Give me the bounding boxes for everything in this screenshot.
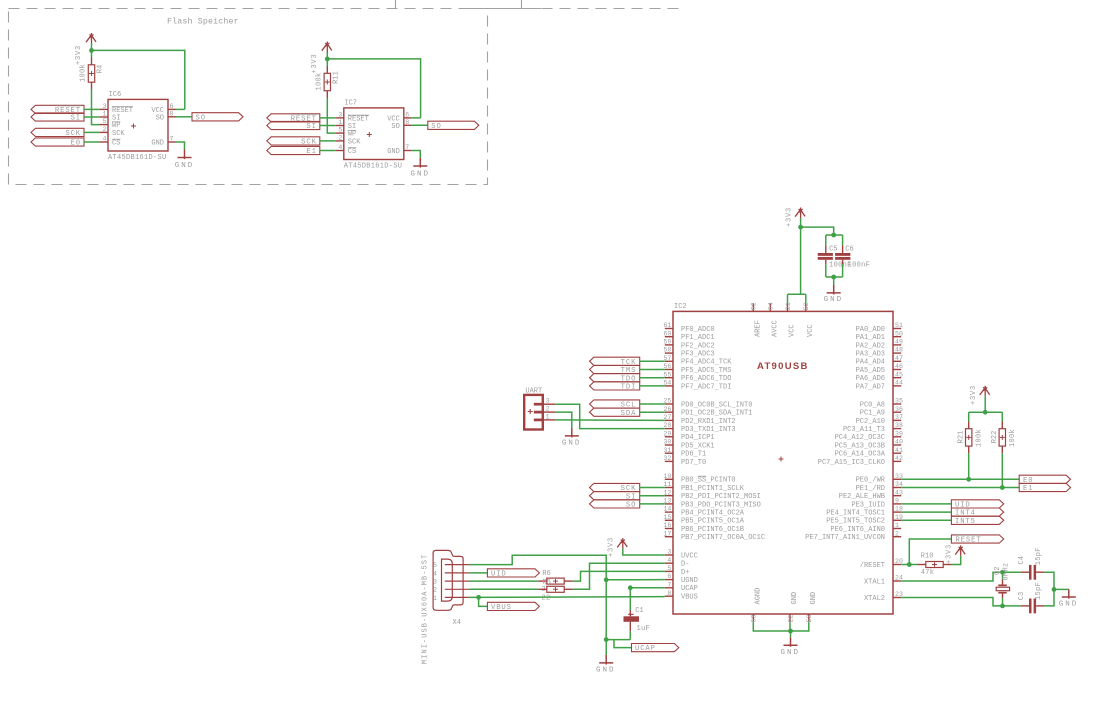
svg-text:30: 30 <box>663 439 671 446</box>
svg-text:+3V3: +3V3 <box>608 537 616 557</box>
wire UART pin3 to PD3 <box>555 404 665 428</box>
svg-text:7: 7 <box>405 144 409 151</box>
pin 13 (PB3_PDO_PCINT3_MISO) of IC2 <box>665 503 673 505</box>
pin 64 (AVCC) of IC2 top <box>769 303 771 311</box>
node SO output label <box>428 121 479 129</box>
svg-text:Flash Speicher: Flash Speicher <box>167 17 239 27</box>
svg-text:7: 7 <box>667 581 671 588</box>
svg-text:1: 1 <box>546 413 550 420</box>
svg-text:Q2: Q2 <box>994 567 1002 575</box>
svg-text:PC1_A9: PC1_A9 <box>860 410 885 418</box>
pin 10 (PB0_SS_PCINT0) of IC2 <box>665 478 673 480</box>
svg-text:IC7: IC7 <box>344 100 357 108</box>
svg-text:PB7_PCINT7_OC0A_OC1C: PB7_PCINT7_OC0A_OC1C <box>681 534 765 542</box>
svg-text:CS: CS <box>112 140 120 148</box>
pin 11 (PB1_PCINT1_SCLK) of IC2 <box>665 487 673 489</box>
svg-text:100k: 100k <box>1009 429 1017 447</box>
wire +3V3 <box>984 396 986 412</box>
capacitor C5 100nF <box>825 235 827 245</box>
svg-text:100nF: 100nF <box>848 262 871 270</box>
wire /RESET pin 20 to R10 <box>901 564 917 566</box>
flash chip IC7 AT45DB161D-SU <box>344 108 404 160</box>
node RESET label <box>951 535 1003 543</box>
pin 63 (AGND) of IC2 bottom <box>752 614 754 622</box>
svg-text:3: 3 <box>546 398 550 405</box>
wire AGND pin 63 to ground <box>753 622 790 631</box>
node xtal gnd junction <box>1052 587 1057 592</box>
pin 7 of IC6 <box>168 141 176 143</box>
svg-text:64: 64 <box>768 302 775 310</box>
wire INT4 <box>901 511 951 513</box>
node SO label (SPI) <box>590 500 640 508</box>
svg-text:PE2_ALE_HWB: PE2_ALE_HWB <box>839 493 885 501</box>
overline for SS in PB0 name <box>698 475 706 477</box>
svg-text:36: 36 <box>895 406 903 413</box>
svg-text:PE0_/WR: PE0_/WR <box>856 477 886 485</box>
power +3V3 (IC7 pull-up rail) <box>322 42 332 53</box>
wire R6 to D+ <box>573 571 665 581</box>
wire TMS <box>640 369 665 371</box>
pin 4 of IC7 <box>336 150 344 152</box>
pin 3 of IC7 <box>336 117 344 119</box>
frame: tick of upper module left edge <box>395 0 397 9</box>
pin 1 (PE6_INT6_AIN0) of IC2 <box>893 528 901 530</box>
svg-text:E0: E0 <box>71 140 81 148</box>
pin 45 (PA6_AD6) of IC2 <box>893 377 901 379</box>
svg-text:37: 37 <box>895 414 903 421</box>
wire R21 to E0 net <box>968 453 970 479</box>
svg-text:3: 3 <box>338 112 342 119</box>
pin 19 (PE5_INT5_TOSC2) of IC2 <box>893 519 901 521</box>
pin 8 of IC6 <box>168 116 176 118</box>
wire UCAP net <box>630 587 665 589</box>
wire SDA <box>640 411 665 413</box>
svg-text:UID: UID <box>491 571 507 579</box>
svg-text:VCC: VCC <box>789 324 797 337</box>
pin 5 of IC7 <box>336 132 344 134</box>
svg-text:X4: X4 <box>453 619 461 627</box>
svg-text:6: 6 <box>667 573 671 580</box>
svg-text:PD5_XCK1: PD5_XCK1 <box>681 442 715 450</box>
svg-text:2: 2 <box>546 406 550 413</box>
wire +3V3 to UVCC <box>623 549 665 555</box>
svg-text:TDI: TDI <box>621 384 637 392</box>
svg-text:SCK: SCK <box>348 138 361 146</box>
svg-text:SO: SO <box>196 114 206 122</box>
svg-text:R6: R6 <box>542 570 550 578</box>
pin 56 (PF5_ADC5_TMS) of IC2 <box>665 369 673 371</box>
node INT5 output label <box>951 516 1003 524</box>
node cap bottom junction <box>831 275 836 280</box>
frame: dashed border of Flash Speicher module <box>9 9 488 185</box>
pin 5 of IC6 <box>100 124 108 126</box>
pin 47 (PA4_AD4) of IC2 <box>893 360 901 362</box>
svg-text:60: 60 <box>663 330 671 337</box>
pin 5 of X4 <box>445 564 470 566</box>
svg-text:50: 50 <box>895 330 903 337</box>
svg-text:PC2_A10: PC2_A10 <box>856 418 885 426</box>
ground (MCU) <box>784 637 798 647</box>
wire X4 pin1 VBUS to MCU <box>470 596 665 599</box>
wire VBUS to label <box>479 597 488 606</box>
svg-text:XTAL2: XTAL2 <box>864 595 885 603</box>
svg-text:16: 16 <box>663 522 671 529</box>
resistor R5 22 <box>470 588 539 590</box>
svg-text:SO: SO <box>626 502 636 510</box>
svg-text:MINI-USB-UX60A-MB-5ST: MINI-USB-UX60A-MB-5ST <box>422 554 430 664</box>
svg-text:29: 29 <box>663 430 671 437</box>
pin 50 (PA1_AD1) of IC2 <box>893 336 901 338</box>
pin 36 (PC1_A9) of IC2 <box>893 411 901 413</box>
svg-text:PC5_A13_OC3B: PC5_A13_OC3B <box>835 442 885 450</box>
svg-text:4: 4 <box>338 144 342 151</box>
pin 1 of X4 <box>445 596 470 598</box>
svg-text:UART: UART <box>525 387 542 395</box>
pin 44 (PA7_AD7) of IC2 <box>893 385 901 387</box>
node vcc junction <box>325 57 330 62</box>
svg-text:100k: 100k <box>315 72 323 90</box>
node RESET input label <box>267 114 320 122</box>
pin 2 of IC6 <box>100 131 108 133</box>
pin 1 of UART <box>534 419 543 422</box>
svg-text:SI: SI <box>306 123 316 131</box>
pin 31 (PD6_T1) of IC2 <box>665 452 673 454</box>
node SCK input label <box>267 137 320 145</box>
svg-text:IC2: IC2 <box>674 303 687 311</box>
wire E1 from PE1 <box>901 487 1019 489</box>
wire RESET <box>84 108 100 110</box>
wire GND pin 7 <box>176 142 185 150</box>
svg-text:PD4_ICP1: PD4_ICP1 <box>681 434 715 442</box>
svg-text:PE6_INT6_AIN0: PE6_INT6_AIN0 <box>830 526 885 534</box>
wire cap bottom rail <box>826 276 843 278</box>
svg-text:PA4_AD4: PA4_AD4 <box>856 359 885 367</box>
wire R22 to E1 net <box>1001 453 1003 487</box>
capacitor C6 100nF <box>842 235 844 245</box>
pin 2 of X4 <box>445 588 470 590</box>
wire R4 to WP pin 5 <box>92 90 101 125</box>
resistor R4 100k <box>91 58 93 65</box>
svg-text:RESET: RESET <box>956 537 982 545</box>
svg-text:CS: CS <box>348 148 356 156</box>
ground (decoupling caps) <box>827 285 841 295</box>
pin 6 of IC6 <box>168 108 176 110</box>
capacitor C3 15pF <box>1003 605 1021 607</box>
svg-text:C5: C5 <box>829 245 837 253</box>
pin 48 (PA3_AD3) of IC2 <box>893 352 901 354</box>
svg-text:PB0_SS_PCINT0: PB0_SS_PCINT0 <box>681 477 736 485</box>
svg-text:SO: SO <box>391 123 399 131</box>
crystal Q2 8MHz <box>1002 572 1004 580</box>
wire C4 to gnd rail <box>1044 572 1054 589</box>
svg-text:PD6_T1: PD6_T1 <box>681 451 706 459</box>
pin 4 (D-) of IC2 <box>665 562 673 564</box>
pin 33 (PE0_/WR) of IC2 <box>893 478 901 480</box>
svg-text:PD1_OC2B_SDA_INT1: PD1_OC2B_SDA_INT1 <box>681 410 752 418</box>
svg-text:INT5: INT5 <box>955 518 976 526</box>
svg-text:1: 1 <box>433 595 437 602</box>
svg-text:GND: GND <box>791 592 799 605</box>
pin 9 (PE3_IUID) of IC2 <box>893 503 901 505</box>
wire TDO <box>640 377 665 379</box>
pin 25 (PD0_OC0B_SCL_INT0) of IC2 <box>665 403 673 405</box>
svg-text:+3V3: +3V3 <box>946 544 954 564</box>
pin 60 (PF1_ADC1) of IC2 <box>665 336 673 338</box>
svg-text:8: 8 <box>667 590 671 597</box>
wire +3V3 rail to VCC pin 6 <box>92 50 185 109</box>
svg-text:GND: GND <box>151 140 164 148</box>
svg-text:39: 39 <box>895 430 903 437</box>
svg-text:100k: 100k <box>80 64 88 82</box>
svg-text:PA6_AD6: PA6_AD6 <box>856 375 885 383</box>
pin 20 (/RESET) of IC2 <box>893 564 901 566</box>
wire +3V3 to R pull-up <box>326 52 328 66</box>
pin 27 (PD2_RXD1_INT2) of IC2 <box>665 419 673 421</box>
wire C3 to gnd rail <box>1044 589 1054 606</box>
pin 46 (PA5_AD5) of IC2 <box>893 369 901 371</box>
svg-text:AT90USB: AT90USB <box>757 361 809 372</box>
svg-text:1: 1 <box>338 119 342 126</box>
svg-text:C1: C1 <box>635 607 643 615</box>
node reset junction <box>907 562 912 567</box>
svg-text:PF4_ADC4_TCK: PF4_ADC4_TCK <box>681 359 732 367</box>
svg-text:VBUS: VBUS <box>491 604 512 612</box>
node TDO input label <box>590 374 640 382</box>
svg-text:PA5_AD5: PA5_AD5 <box>856 367 885 375</box>
pin 3 of IC6 <box>100 108 108 110</box>
svg-text:GND: GND <box>387 148 400 156</box>
wire to ground <box>1054 588 1069 590</box>
svg-text:15pF: 15pF <box>1035 547 1043 565</box>
wire SO <box>640 503 665 505</box>
svg-text:PE3_IUID: PE3_IUID <box>851 501 885 509</box>
svg-text:R5: R5 <box>542 579 550 587</box>
svg-text:WP: WP <box>348 131 356 139</box>
node UID output label <box>951 500 1003 508</box>
svg-text:SDA: SDA <box>621 410 637 418</box>
svg-text:1: 1 <box>103 111 107 118</box>
node usb gnd junction <box>604 637 609 642</box>
pin 23 (XTAL2) of IC2 <box>893 597 901 599</box>
pin 14 (PB4_PCINT4_OC2A) of IC2 <box>665 511 673 513</box>
pin 22 (GND) of IC2 bottom <box>789 614 791 622</box>
wire SCL <box>640 403 665 405</box>
svg-text:1uF: 1uF <box>637 625 651 633</box>
svg-text:PF7_ADC7_TDI: PF7_ADC7_TDI <box>681 383 731 391</box>
pin 7 of IC7 <box>404 150 412 152</box>
svg-text:1: 1 <box>895 522 899 529</box>
wire +3V3 down <box>800 218 802 227</box>
node UID label (usb) <box>487 569 539 577</box>
resistor R11 100k <box>326 66 328 73</box>
wire rail to R21/R22 <box>969 411 1003 413</box>
svg-text:IC6: IC6 <box>109 91 122 99</box>
pin 2 (PE7_INT7_AIN1_UVCON) of IC2 <box>893 536 901 538</box>
svg-text:46: 46 <box>895 363 903 370</box>
node supply junction <box>798 225 803 230</box>
node SCK input label <box>31 128 84 136</box>
node E1 output label <box>1019 483 1070 491</box>
wire R11 to WP pin 5 <box>327 98 336 133</box>
pin 7 (UCAP) of IC2 <box>665 587 673 589</box>
svg-text:D-: D- <box>681 561 689 569</box>
node crystal top junction <box>1000 570 1005 575</box>
svg-text:GND: GND <box>824 296 844 304</box>
pin 49 (PA2_AD2) of IC2 <box>893 344 901 346</box>
pin 15 (PB5_PCINT5_OC1A) of IC2 <box>665 519 673 521</box>
pin 55 (PF6_ADC6_TDO) of IC2 <box>665 377 673 379</box>
svg-text:PA1_AD1: PA1_AD1 <box>856 334 885 342</box>
svg-text:UVCC: UVCC <box>681 552 698 560</box>
svg-text:14: 14 <box>663 506 671 513</box>
svg-text:PC7_A15_IC3_CLKO: PC7_A15_IC3_CLKO <box>818 459 885 467</box>
svg-text:9: 9 <box>895 498 899 505</box>
wire UART pin2 to ground <box>555 412 572 428</box>
pin 5 (D+) of IC2 <box>665 570 673 572</box>
power +3V3 (UVCC) <box>617 538 627 549</box>
svg-text:GND: GND <box>780 649 800 657</box>
svg-text:44: 44 <box>895 380 903 387</box>
frame: dashed segment of neighbouring module along top edge <box>488 8 681 10</box>
svg-text:38: 38 <box>895 422 903 429</box>
ground (USB) <box>599 655 613 665</box>
wire cap top rail <box>826 234 843 236</box>
pin 29 (PD4_ICP1) of IC2 <box>665 436 673 438</box>
svg-text:+3V3: +3V3 <box>970 385 978 405</box>
svg-text:+3V3: +3V3 <box>75 45 83 65</box>
node SCL label <box>590 400 640 408</box>
node TDI input label <box>590 382 640 390</box>
node SO output label <box>192 113 243 121</box>
svg-text:PF1_ADC1: PF1_ADC1 <box>681 334 715 342</box>
svg-text:PB5_PCINT5_OC1A: PB5_PCINT5_OC1A <box>681 518 745 526</box>
svg-text:PE5_INT5_TOSC2: PE5_INT5_TOSC2 <box>826 518 885 526</box>
svg-text:2: 2 <box>338 135 342 142</box>
wire XTAL2 <box>901 598 1002 606</box>
wire TCK <box>640 360 665 362</box>
svg-text:5: 5 <box>667 565 671 572</box>
wire RESET <box>320 117 336 119</box>
pin 18 (PE4_INT4_TOSC1) of IC2 <box>893 511 901 513</box>
wire to ground <box>833 277 835 285</box>
svg-text:PF3_ADC3: PF3_ADC3 <box>681 351 715 359</box>
node UCAP label <box>632 644 679 652</box>
svg-text:AT45DB161D-SU: AT45DB161D-SU <box>108 154 167 162</box>
wire junction to cap rail <box>801 227 834 235</box>
svg-text:4: 4 <box>433 570 437 577</box>
svg-text:32: 32 <box>663 455 671 462</box>
svg-text:PB2_PDI_PCINT2_MOSI: PB2_PDI_PCINT2_MOSI <box>681 493 761 501</box>
pin 57 (PF4_ADC4_TCK) of IC2 <box>665 360 673 362</box>
svg-text:E1: E1 <box>306 148 316 156</box>
svg-text:PD2_RXD1_INT2: PD2_RXD1_INT2 <box>681 418 736 426</box>
svg-text:10: 10 <box>663 473 671 480</box>
pin 53 (GND) of IC2 bottom <box>808 614 810 622</box>
svg-text:PC6_A14_OC3A: PC6_A14_OC3A <box>835 451 886 459</box>
svg-text:47k: 47k <box>921 569 935 577</box>
flash chip IC6 AT45DB161D-SU <box>108 99 168 151</box>
svg-text:2: 2 <box>433 587 437 594</box>
svg-text:63: 63 <box>751 615 758 623</box>
pin 3 of UART <box>534 403 543 406</box>
svg-text:53: 53 <box>806 615 813 623</box>
pin 4 of IC6 <box>100 141 108 143</box>
node SI input label <box>31 113 84 121</box>
pin 59 (PF2_ADC2) of IC2 <box>665 344 673 346</box>
svg-text:7: 7 <box>170 136 174 143</box>
node cap top rail junction <box>831 233 836 238</box>
wire gnd rail <box>606 639 630 641</box>
power +3V3 (IC6 pull-up rail) <box>86 33 96 44</box>
ground (UART) <box>565 428 579 438</box>
node pull-up rail junction <box>983 410 988 415</box>
pin 12 (PB2_PDI_PCINT2_MOSI) of IC2 <box>665 495 673 497</box>
wire UGND to MCU <box>606 579 665 581</box>
svg-text:GND: GND <box>562 439 582 447</box>
svg-text:R4: R4 <box>97 65 105 73</box>
svg-text:5: 5 <box>103 118 107 125</box>
svg-text:45: 45 <box>895 371 903 378</box>
pin 38 (PC3_A11_T3) of IC2 <box>893 428 901 430</box>
wire SI <box>320 125 336 127</box>
pin 42 (PC7_A15_IC3_CLKO) of IC2 <box>893 460 901 462</box>
svg-text:PA0_AD0: PA0_AD0 <box>856 326 885 334</box>
svg-text:PA7_AD7: PA7_AD7 <box>856 383 885 391</box>
wire SO <box>176 116 192 118</box>
svg-text:17: 17 <box>663 530 671 537</box>
wire R5 to D- <box>573 563 665 589</box>
svg-text:22: 22 <box>542 595 551 603</box>
svg-text:51: 51 <box>895 322 903 329</box>
svg-text:6: 6 <box>170 103 174 110</box>
wire X4 shield pin5 to gnd net <box>470 555 607 639</box>
svg-text:R11: R11 <box>332 71 340 84</box>
node E1 junction <box>1000 485 1005 490</box>
svg-text:52: 52 <box>803 302 810 310</box>
pin 30 (PD5_XCK1) of IC2 <box>665 444 673 446</box>
svg-text:21: 21 <box>785 302 792 310</box>
wire reset up to label <box>909 539 951 565</box>
pin 24 (XTAL1) of IC2 <box>893 580 901 582</box>
svg-text:WP: WP <box>112 122 120 130</box>
svg-text:58: 58 <box>663 347 671 354</box>
node E0 output label <box>1019 475 1070 483</box>
svg-text:PE7_INT7_AIN1_UVCON: PE7_INT7_AIN1_UVCON <box>805 534 885 542</box>
node UCAP junction <box>628 585 633 590</box>
svg-text:PE1_/RD: PE1_/RD <box>856 485 885 493</box>
pin 40 (PC5_A13_OC3B) of IC2 <box>893 444 901 446</box>
svg-text:R10: R10 <box>921 553 934 561</box>
wire SO <box>412 124 428 126</box>
wire GND pin 7 <box>412 151 421 159</box>
pin 28 (PD3_TXD1_INT3) of IC2 <box>665 428 673 430</box>
connector X4 MINI-USB-UX60A-MB-5ST <box>433 550 463 610</box>
svg-text:PF6_ADC6_TDO: PF6_ADC6_TDO <box>681 375 731 383</box>
node TMS input label <box>590 365 640 373</box>
power +3V3 (E0/E1 pull-ups) <box>980 386 990 397</box>
svg-text:41: 41 <box>895 447 903 454</box>
pin 2 of UART <box>534 411 543 414</box>
svg-text:4: 4 <box>103 136 107 143</box>
svg-text:D+: D+ <box>681 569 689 577</box>
svg-text:GND: GND <box>1059 601 1079 609</box>
node vcc junction <box>89 48 94 53</box>
svg-text:PE4_INT4_TOSC1: PE4_INT4_TOSC1 <box>826 510 885 518</box>
svg-text:C4: C4 <box>1018 556 1026 564</box>
node INT4 output label <box>951 508 1003 516</box>
pin 34 (PE1_/RD) of IC2 <box>893 487 901 489</box>
node VBUS junction <box>476 595 481 600</box>
